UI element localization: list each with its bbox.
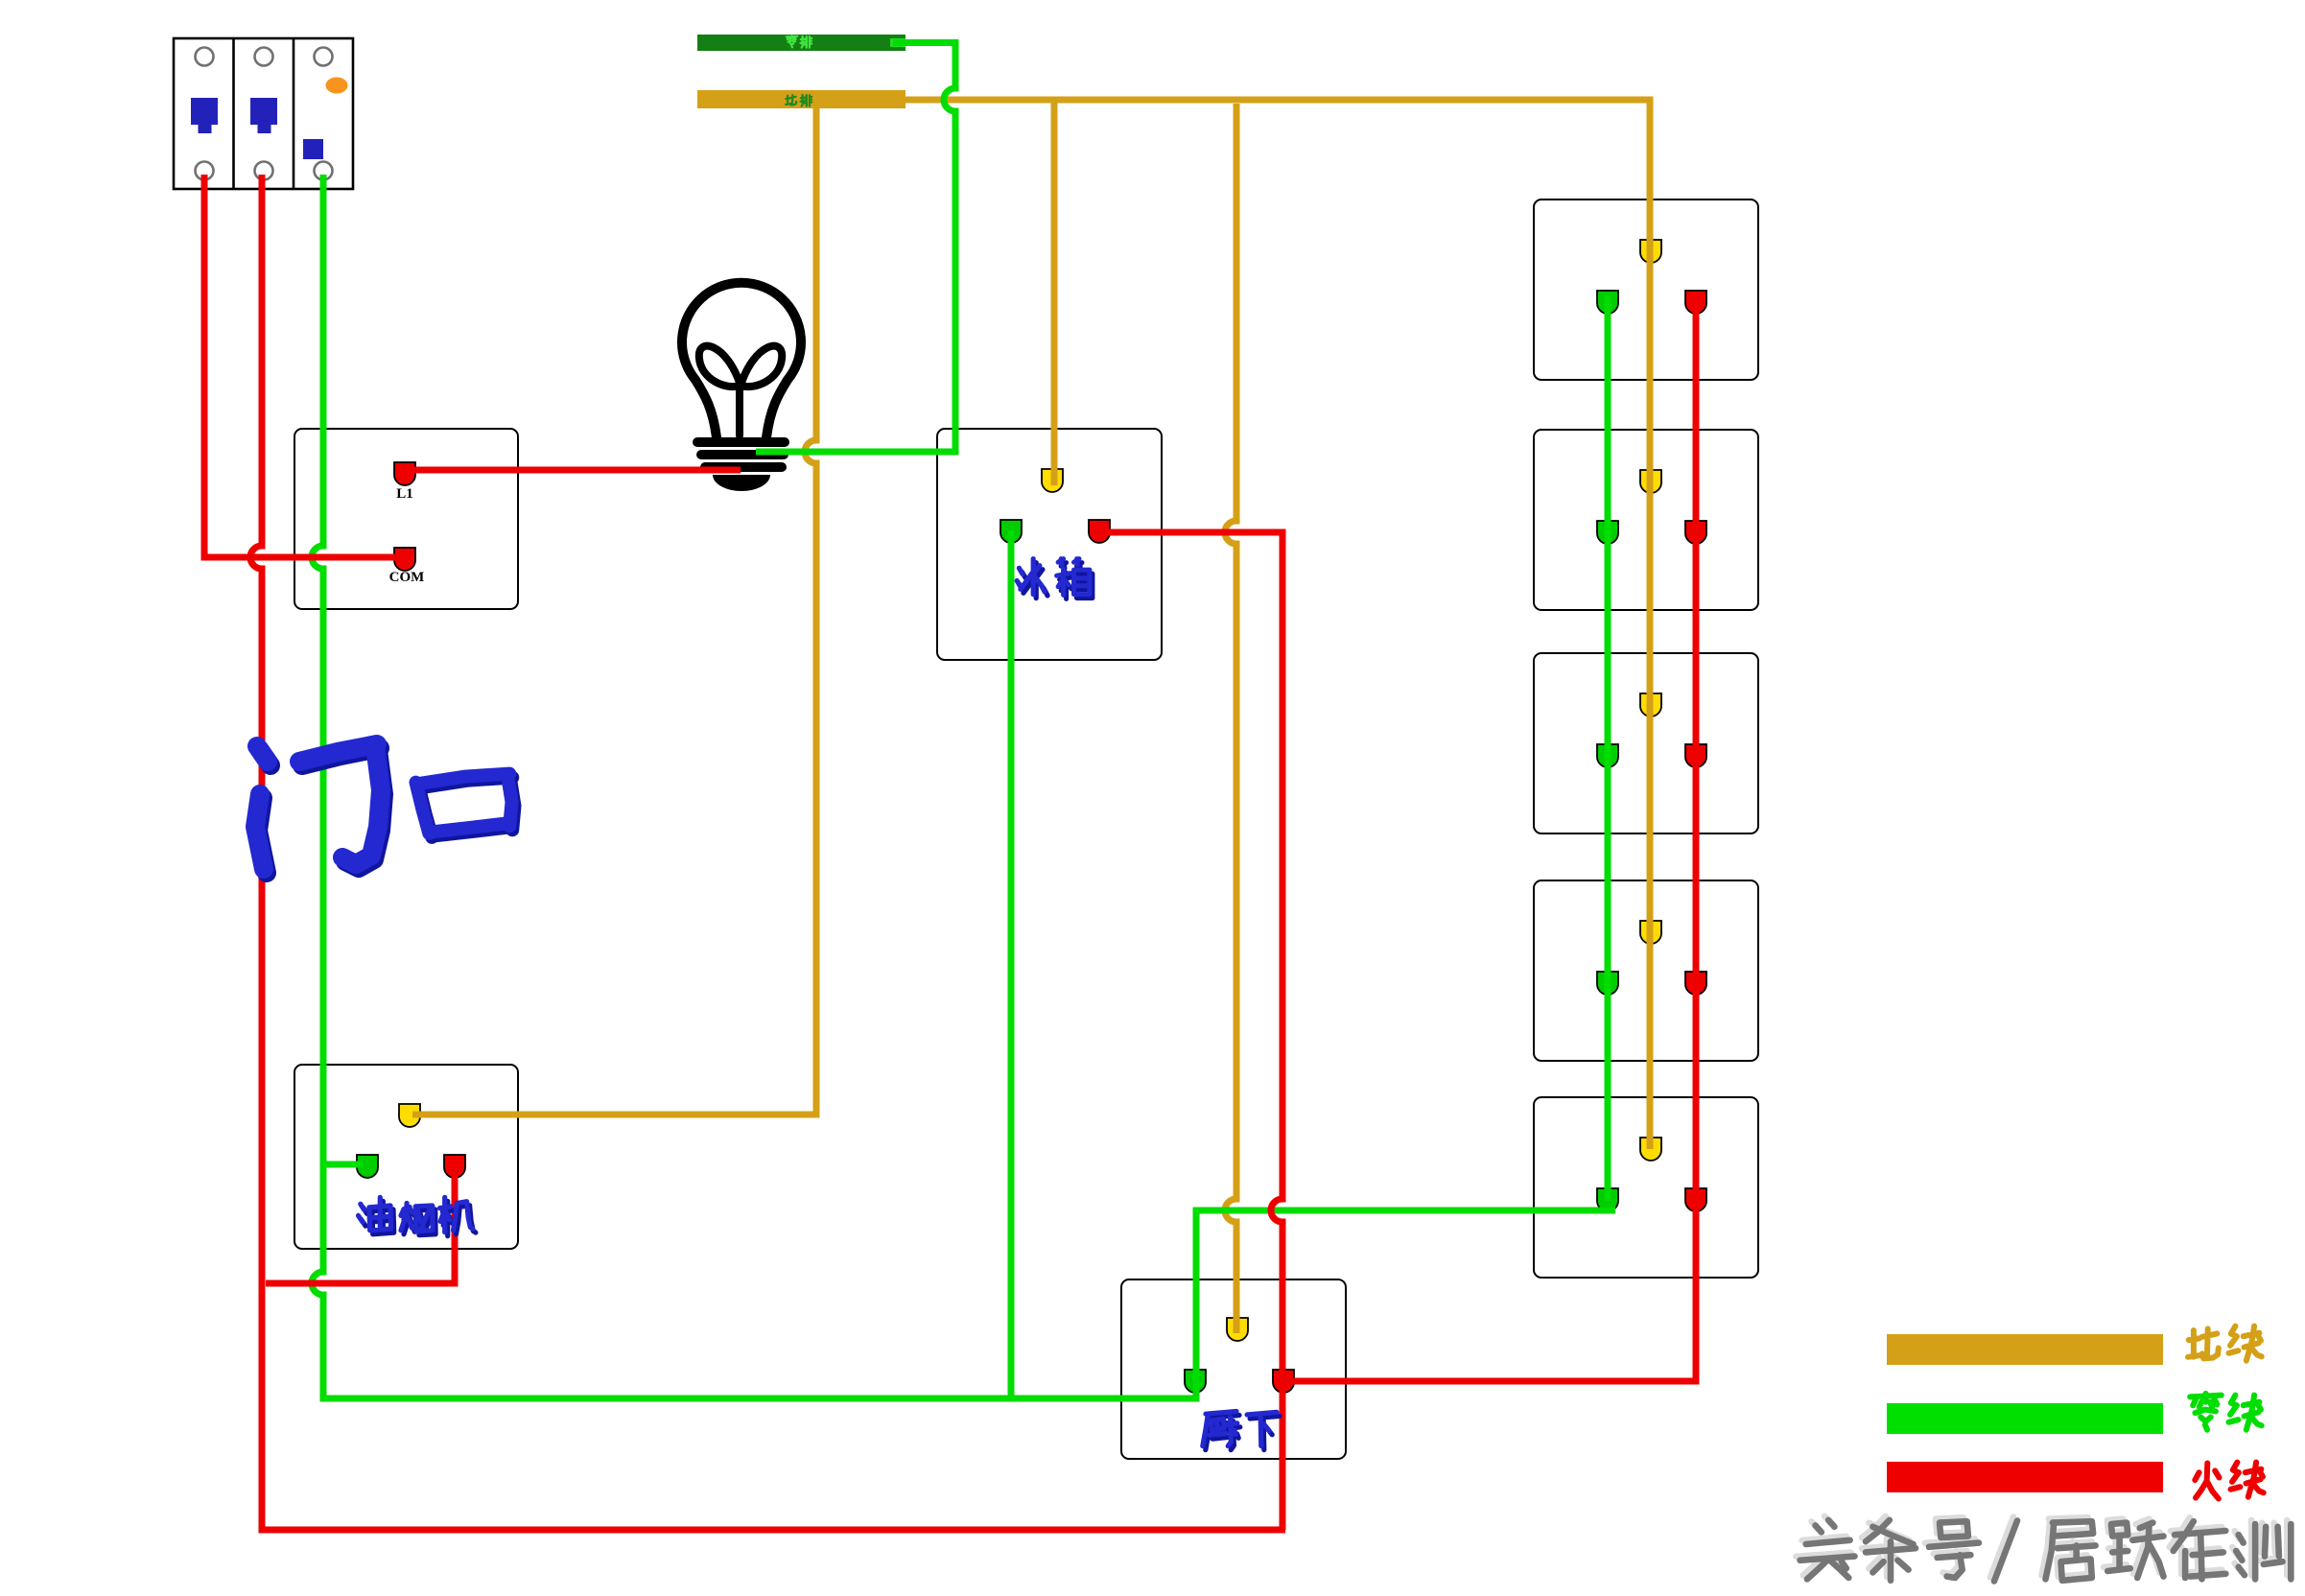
breaker divider 2	[293, 38, 295, 189]
right box 2 live terminal	[1685, 521, 1706, 544]
breaker CB1 bottom terminal circle	[196, 162, 214, 180]
legend ground bar	[1887, 1334, 2163, 1365]
label youyanji char 3	[443, 1201, 476, 1235]
breaker panel outline	[174, 38, 353, 189]
legend label huoxian char 2	[2231, 1463, 2264, 1497]
under-kitchen live terminal	[1273, 1370, 1294, 1393]
wire: neutral from bus to bulb (hops gold bus extension)	[756, 43, 955, 453]
right box 1 live terminal	[1685, 291, 1706, 314]
breaker CB3 indicator lamp	[326, 78, 348, 94]
legend label dixian char 2	[2229, 1326, 2262, 1361]
neutral bus bar	[697, 35, 906, 51]
legend label dixian char 1	[2188, 1328, 2219, 1358]
breaker CB3 test button	[303, 139, 323, 159]
right box 4 neutral terminal	[1597, 972, 1618, 995]
legend live bar	[1887, 1462, 2163, 1492]
light bulb glass	[682, 283, 801, 437]
wire: neutral main from breaker CB3 down-left side to under-kitchen (hops live twice)	[312, 175, 1196, 1398]
right box 5 neutral terminal	[1597, 1188, 1618, 1211]
right box 3 ground terminal	[1640, 693, 1661, 716]
switch terminal L1	[394, 462, 415, 485]
watermark char 8	[2232, 1520, 2287, 1575]
breaker CB2 bottom terminal circle	[255, 162, 273, 180]
label youyanji char 1	[362, 1201, 394, 1233]
legend neutral bar	[1887, 1403, 2163, 1434]
fridge neutral terminal	[1000, 520, 1022, 543]
label bingxiang char 2	[1060, 563, 1093, 599]
watermark char 6	[2104, 1519, 2159, 1574]
light bulb filament	[699, 346, 782, 435]
right socket box 5	[1534, 1097, 1758, 1278]
light bulb screw thread 3	[700, 462, 787, 472]
watermark char 7	[2170, 1517, 2223, 1575]
hood live terminal	[444, 1155, 465, 1178]
wire: live from range hood terminal down and left to breaker CB2 riser	[266, 1161, 455, 1283]
under-kitchen socket box	[1121, 1279, 1346, 1459]
label chuxia char 1	[1206, 1416, 1240, 1450]
right socket box 1	[1534, 199, 1758, 380]
hood ground terminal	[399, 1104, 420, 1127]
wire: gold drop past bulb to range hood ground terminal (hops neutral)	[412, 108, 816, 1115]
right box 4 ground terminal	[1640, 921, 1661, 944]
legend label lingxian char 2	[2229, 1396, 2262, 1430]
under-kitchen neutral terminal	[1185, 1370, 1206, 1393]
wire: neutral stub to range hood terminal	[323, 1162, 363, 1168]
right box 1 ground terminal	[1640, 240, 1661, 263]
wire: neutral from under-kitchen terminal up and right to right box 5	[1196, 1210, 1615, 1377]
right socket box 2	[1534, 430, 1758, 610]
label chuxia char 2	[1250, 1416, 1280, 1449]
watermark char 2	[1862, 1516, 1912, 1577]
wire: neutral from fridge terminal down to bottom run	[1008, 530, 1015, 1398]
range hood socket box	[294, 1065, 518, 1249]
wire: gold ground bus extension to right column	[906, 100, 1650, 1149]
label men (door) big blue	[258, 748, 384, 873]
fridge ground terminal	[1042, 469, 1063, 492]
label lingpai char 1	[787, 35, 797, 47]
label dipai char 1	[786, 95, 796, 105]
under-kitchen ground terminal	[1227, 1318, 1248, 1341]
wire: live from fridge terminal right and down to under-kitchen (hops neutral)	[1103, 532, 1282, 1530]
breaker CB2 handle	[250, 98, 277, 133]
fridge socket box	[937, 429, 1162, 660]
watermark char 5	[2042, 1517, 2092, 1577]
light bulb screw thread 1	[693, 437, 789, 447]
breaker CB3 bottom terminal circle	[315, 162, 333, 180]
switch terminal COM	[394, 548, 415, 571]
watermark char 4	[1990, 1517, 2013, 1578]
wire: gold drop to fridge ground terminal	[1051, 100, 1058, 485]
wire: live main from breaker CB2 down (hops COM branch) and along bottom	[250, 175, 1285, 1530]
label kou (mouth) big blue	[419, 778, 515, 837]
wire: neutral vertical of right column	[1605, 295, 1611, 1201]
light bulb base cap	[713, 475, 770, 491]
fridge live terminal	[1089, 520, 1110, 543]
switch box	[294, 429, 518, 609]
right box 5 live terminal	[1685, 1188, 1706, 1211]
breaker CB3 top terminal circle	[315, 48, 333, 66]
label dipai char 2	[801, 95, 812, 106]
neutral bus connector nub	[890, 38, 906, 47]
right box 3 neutral terminal	[1597, 744, 1618, 767]
label bingxiang char 1	[1020, 563, 1047, 598]
right box 2 ground terminal	[1640, 470, 1661, 493]
svg-text:L1: L1	[396, 486, 413, 502]
hood neutral terminal	[357, 1155, 378, 1178]
breaker divider 1	[232, 38, 235, 189]
wire: live from breaker CB1 to switch COM	[204, 175, 402, 557]
label youyanji char 2	[404, 1208, 435, 1235]
legend label huoxian char 1	[2195, 1464, 2219, 1499]
watermark char 1	[1797, 1516, 1851, 1576]
breaker CB2 top terminal circle	[255, 48, 273, 66]
right socket box 3	[1534, 653, 1758, 833]
label lingpai char 2	[801, 36, 812, 48]
right socket box 4	[1534, 880, 1758, 1061]
right box 4 live terminal	[1685, 972, 1706, 995]
wire: gold drop to under-kitchen ground terminal (hops live and neutral)	[1225, 104, 1236, 1333]
svg-text:COM: COM	[389, 570, 425, 585]
right box 1 neutral terminal	[1597, 291, 1618, 314]
right box 5 ground terminal	[1640, 1138, 1661, 1161]
wire: live from switch L1 to bulb	[411, 467, 741, 474]
breaker CB1 handle	[191, 98, 218, 133]
legend label lingxian char 1	[2190, 1394, 2222, 1430]
breaker CB1 top terminal circle	[196, 48, 214, 66]
wire: live vertical of right column to under-kitchen terminal	[1289, 295, 1696, 1381]
ground bus bar	[697, 90, 906, 108]
light bulb screw thread 2	[696, 450, 788, 459]
right box 2 neutral terminal	[1597, 521, 1618, 544]
watermark char 3	[1925, 1517, 1975, 1574]
right box 3 live terminal	[1685, 744, 1706, 767]
